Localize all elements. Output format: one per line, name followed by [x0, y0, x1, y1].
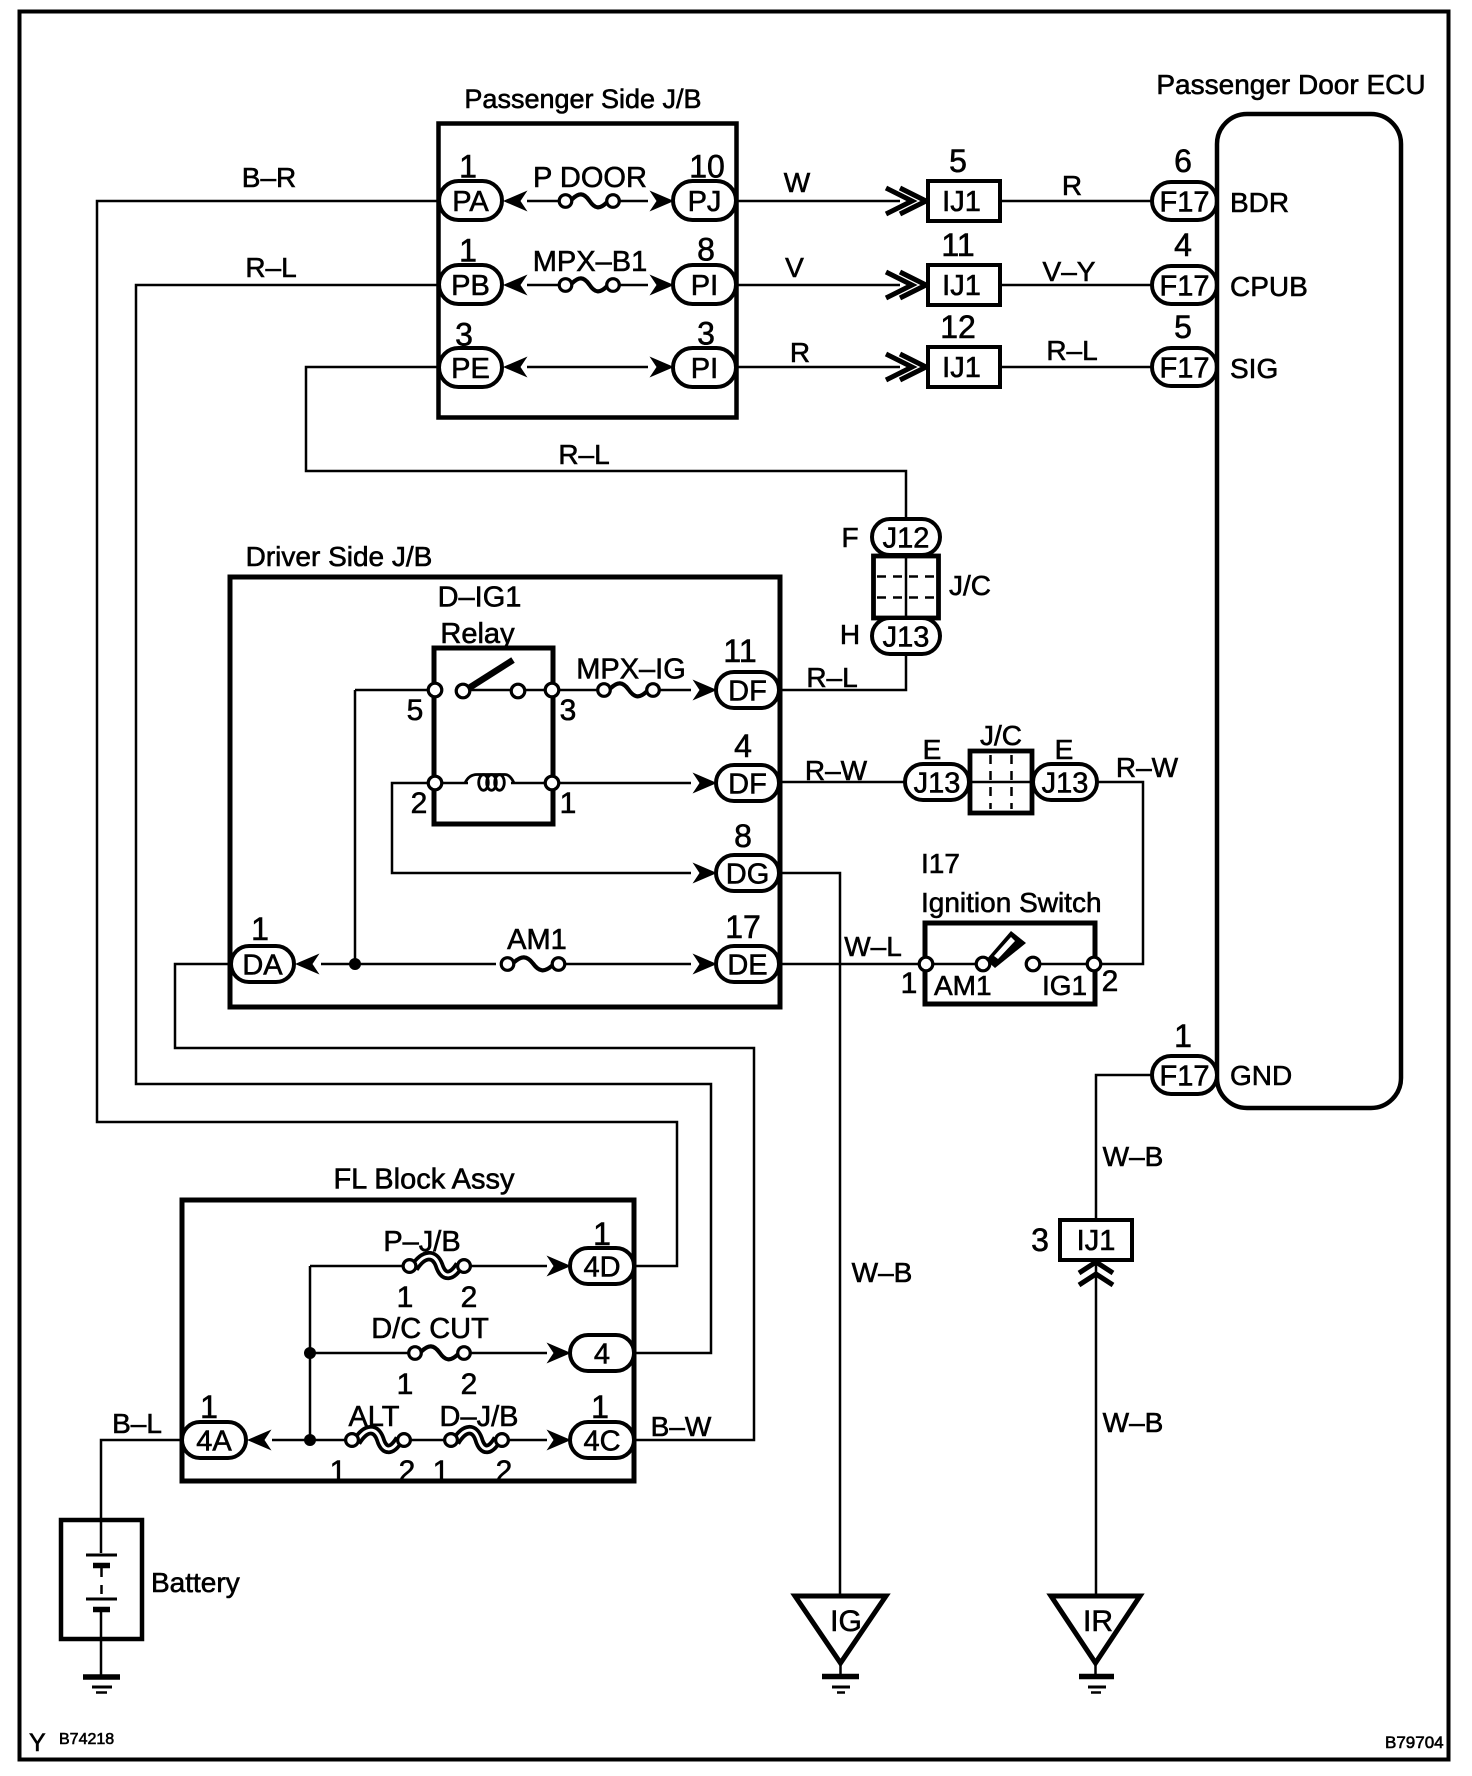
svg-text:R–W: R–W — [805, 755, 868, 786]
wire PA fuse row — [527, 200, 560, 203]
svg-text:DA: DA — [242, 949, 283, 981]
arrow into DF — [693, 680, 718, 701]
svg-text:J13: J13 — [914, 767, 961, 799]
svg-text:PE: PE — [451, 353, 490, 385]
svg-text:8: 8 — [734, 818, 752, 854]
svg-text:J/C: J/C — [980, 720, 1022, 751]
svg-text:R–L: R–L — [558, 439, 609, 470]
svg-text:3: 3 — [1031, 1222, 1049, 1258]
svg-text:1: 1 — [200, 1389, 218, 1425]
switch contact AM1 — [976, 957, 990, 971]
wire R net row 3 — [737, 366, 901, 369]
svg-text:DF: DF — [728, 675, 767, 707]
svg-text:1: 1 — [433, 1455, 450, 1488]
svg-text:B–L: B–L — [112, 1408, 162, 1439]
junction connector J/C box — [874, 556, 939, 618]
svg-text:AM1: AM1 — [934, 970, 992, 1001]
svg-text:2: 2 — [399, 1455, 416, 1488]
fuse MPX-IG — [598, 684, 611, 697]
relay pin 2 — [428, 776, 442, 790]
svg-text:W–B: W–B — [852, 1257, 913, 1288]
wire R-L net: PB to 4 — [136, 285, 711, 1353]
svg-text:1: 1 — [560, 787, 577, 820]
wire vertical bus inside FL block — [309, 1266, 312, 1440]
svg-text:P DOOR: P DOOR — [533, 162, 647, 194]
svg-text:E: E — [1055, 734, 1074, 765]
switch lever — [986, 931, 1026, 968]
svg-text:Passenger Side J/B: Passenger Side J/B — [464, 84, 701, 114]
Passenger Door ECU box — [1217, 114, 1401, 1108]
wire W-L net DE to ignition — [779, 963, 919, 966]
svg-text:2: 2 — [461, 1281, 478, 1314]
ground IG — [795, 1596, 886, 1663]
svg-text:5: 5 — [407, 694, 424, 727]
svg-text:F17: F17 — [1160, 1060, 1210, 1092]
arrow into PJ — [650, 191, 675, 212]
svg-text:IJ1: IJ1 — [1077, 1225, 1116, 1257]
Passenger Side J/B box — [439, 124, 737, 418]
svg-text:D/C CUT: D/C CUT — [371, 1313, 489, 1345]
svg-text:1: 1 — [901, 967, 918, 1000]
wire pin5 row — [355, 689, 428, 692]
svg-text:2: 2 — [461, 1368, 478, 1401]
svg-text:W–L: W–L — [844, 931, 902, 962]
chevron junction into IJ1 — [900, 354, 926, 380]
svg-text:DF: DF — [728, 768, 767, 800]
battery box — [61, 1520, 142, 1639]
svg-text:IG: IG — [830, 1605, 862, 1638]
svg-text:J13: J13 — [1042, 767, 1089, 799]
wire W-B net GND to IJ1 — [1096, 1075, 1152, 1220]
svg-text:B–W: B–W — [651, 1411, 712, 1442]
svg-text:H: H — [840, 619, 860, 650]
relay switch contact — [511, 684, 525, 698]
wire coil row — [442, 782, 468, 785]
svg-text:PJ: PJ — [688, 186, 722, 218]
wire B-W net: DA to 4C — [175, 964, 754, 1440]
svg-text:1: 1 — [591, 1389, 609, 1425]
svg-text:MPX–B1: MPX–B1 — [533, 246, 647, 278]
wire V–Y net row 2 — [1000, 284, 1152, 287]
wire pin2 to DG — [392, 783, 691, 873]
svg-text:1: 1 — [397, 1281, 414, 1314]
svg-text:Passenger Door ECU: Passenger Door ECU — [1156, 69, 1425, 100]
arrow into PA — [503, 191, 528, 212]
svg-text:11: 11 — [723, 633, 756, 669]
arrow into PI row3 — [650, 357, 675, 378]
svg-text:AM1: AM1 — [507, 924, 567, 956]
svg-text:IJ1: IJ1 — [942, 186, 981, 218]
arrow into PB — [503, 275, 528, 296]
svg-text:1: 1 — [1174, 1018, 1192, 1054]
arrow into DG — [693, 863, 718, 884]
ignition switch box — [925, 923, 1095, 1004]
junction dot — [304, 1434, 316, 1446]
relay pin 1 — [545, 776, 559, 790]
relay D-IG1 box — [434, 648, 553, 824]
svg-text:12: 12 — [940, 309, 976, 345]
junction dot — [304, 1347, 316, 1359]
chevron junction below IJ1 — [1079, 1262, 1113, 1273]
svg-text:4: 4 — [734, 728, 752, 764]
svg-text:W: W — [784, 167, 811, 198]
svg-text:D–J/B: D–J/B — [440, 1401, 519, 1433]
wire R-L net: PE to J12 — [306, 367, 906, 520]
wire W-B net DG to IG ground — [779, 873, 840, 1596]
svg-text:2: 2 — [1102, 965, 1119, 998]
ground IR — [1051, 1596, 1140, 1663]
ground below battery — [83, 1674, 120, 1680]
svg-text:1: 1 — [397, 1368, 414, 1401]
svg-text:DE: DE — [727, 949, 767, 981]
wire P-J/B row — [310, 1265, 404, 1268]
wire R net row 1 — [1000, 200, 1152, 203]
wire D/C CUT row — [310, 1352, 409, 1355]
svg-text:Battery: Battery — [151, 1567, 240, 1598]
svg-text:17: 17 — [725, 909, 761, 945]
svg-text:B74218: B74218 — [59, 1731, 114, 1748]
fuse P DOOR — [559, 195, 572, 208]
svg-text:MPX–IG: MPX–IG — [576, 654, 686, 686]
svg-text:5: 5 — [949, 143, 967, 179]
wire inside switch — [933, 963, 976, 966]
svg-text:Relay: Relay — [440, 618, 515, 650]
arrow into 4C — [547, 1430, 572, 1451]
svg-text:V–Y: V–Y — [1043, 256, 1096, 287]
fuse AM1 — [501, 958, 514, 971]
svg-text:B–R: B–R — [242, 162, 296, 193]
wire pin1 to DF4 — [559, 782, 691, 785]
svg-text:Ignition Switch: Ignition Switch — [921, 887, 1102, 918]
svg-text:V: V — [785, 252, 804, 283]
arrow into DF — [693, 773, 718, 794]
arrow into PE — [503, 357, 528, 378]
wire to DF11 — [660, 689, 691, 692]
battery cells — [100, 1520, 103, 1553]
wire R–L net row 3 — [1000, 366, 1152, 369]
svg-text:4: 4 — [594, 1338, 610, 1370]
svg-text:11: 11 — [941, 227, 974, 263]
svg-text:4A: 4A — [196, 1425, 232, 1457]
chevron junction into IJ1 — [900, 272, 926, 298]
svg-text:J12: J12 — [883, 522, 930, 554]
relay pin 5 — [428, 683, 442, 697]
svg-text:Y: Y — [29, 1729, 46, 1757]
svg-text:PI: PI — [691, 270, 718, 302]
svg-text:1: 1 — [330, 1455, 347, 1488]
arrow into 4D — [547, 1256, 572, 1277]
arrow into PI — [650, 275, 675, 296]
relay switch contact — [456, 684, 470, 698]
svg-text:F17: F17 — [1160, 352, 1210, 384]
relay switch lever — [469, 660, 513, 688]
svg-text:BDR: BDR — [1230, 187, 1289, 218]
svg-text:PI: PI — [691, 353, 718, 385]
Driver Side J/B box — [230, 577, 780, 1007]
fuse MPX-B1 — [559, 279, 572, 292]
svg-text:CPUB: CPUB — [1230, 271, 1308, 302]
wire pin5 vertical — [354, 690, 357, 964]
relay coil — [465, 775, 514, 784]
svg-text:J13: J13 — [883, 621, 930, 653]
svg-text:IR: IR — [1083, 1605, 1113, 1638]
wire PB fuse row — [527, 284, 560, 287]
arrow into DA — [295, 954, 320, 975]
svg-text:3: 3 — [560, 694, 577, 727]
svg-text:4: 4 — [1174, 227, 1192, 263]
svg-text:R–L: R–L — [1046, 335, 1097, 366]
wire R-W net J13 to ignition switch — [1097, 782, 1143, 964]
svg-text:B79704: B79704 — [1385, 1733, 1444, 1752]
svg-text:E: E — [923, 734, 942, 765]
svg-text:R: R — [1062, 170, 1082, 201]
connector 4 — [570, 1335, 634, 1371]
switch pin 2 — [1087, 957, 1101, 971]
svg-text:F17: F17 — [1160, 186, 1210, 218]
svg-text:R–L: R–L — [806, 662, 857, 693]
svg-text:4D: 4D — [583, 1251, 620, 1283]
svg-text:IJ1: IJ1 — [942, 352, 981, 384]
svg-text:FL Block Assy: FL Block Assy — [333, 1164, 515, 1196]
svg-text:DG: DG — [726, 858, 770, 890]
svg-text:2: 2 — [411, 787, 428, 820]
FL Block Assy box — [182, 1200, 634, 1481]
svg-text:F: F — [841, 522, 858, 553]
wire DE row — [321, 963, 496, 966]
wire PE to PI — [527, 366, 648, 369]
svg-text:GND: GND — [1230, 1060, 1292, 1091]
svg-text:SIG: SIG — [1230, 353, 1278, 384]
wire B-R net: PA to 4D — [97, 201, 677, 1266]
switch pin 1 — [919, 957, 933, 971]
svg-text:R–L: R–L — [245, 252, 296, 283]
svg-text:W–B: W–B — [1103, 1407, 1164, 1438]
svg-text:6: 6 — [1174, 143, 1192, 179]
svg-text:IG1: IG1 — [1042, 970, 1087, 1001]
svg-text:1: 1 — [251, 911, 269, 947]
svg-text:8: 8 — [697, 232, 715, 268]
junction dot — [349, 958, 361, 970]
chevron junction into IJ1 — [900, 188, 926, 214]
wire ALT row — [272, 1439, 346, 1442]
svg-text:IJ1: IJ1 — [942, 270, 981, 302]
relay pin 3 — [545, 683, 559, 697]
svg-text:5: 5 — [1174, 309, 1192, 345]
svg-text:4C: 4C — [583, 1425, 620, 1457]
wire R-W net DF to J13 — [779, 781, 905, 784]
svg-text:W–B: W–B — [1103, 1141, 1164, 1172]
wire B-L net battery to 4A — [101, 1440, 182, 1520]
svg-text:R: R — [790, 337, 810, 368]
svg-text:F17: F17 — [1160, 270, 1210, 302]
wire W net row 1 — [737, 200, 901, 203]
wire R-L net J13 to DF — [779, 654, 906, 690]
svg-text:PA: PA — [452, 186, 489, 218]
svg-text:R–W: R–W — [1116, 752, 1179, 783]
svg-text:PB: PB — [451, 270, 490, 302]
arrow into 4 — [547, 1343, 572, 1364]
svg-text:2: 2 — [496, 1455, 513, 1488]
wire V net row 2 — [737, 284, 901, 287]
svg-text:J/C: J/C — [949, 570, 991, 601]
svg-text:D–IG1: D–IG1 — [438, 582, 522, 614]
wire battery to ground — [100, 1609, 103, 1677]
wire W-B net IJ1 to IR ground — [1095, 1260, 1098, 1596]
arrow into 4A — [247, 1430, 272, 1451]
svg-text:I17: I17 — [921, 848, 960, 879]
arrow into DE — [693, 954, 718, 975]
switch contact IG1 — [1026, 957, 1040, 971]
svg-text:Driver Side J/B: Driver Side J/B — [246, 541, 433, 572]
